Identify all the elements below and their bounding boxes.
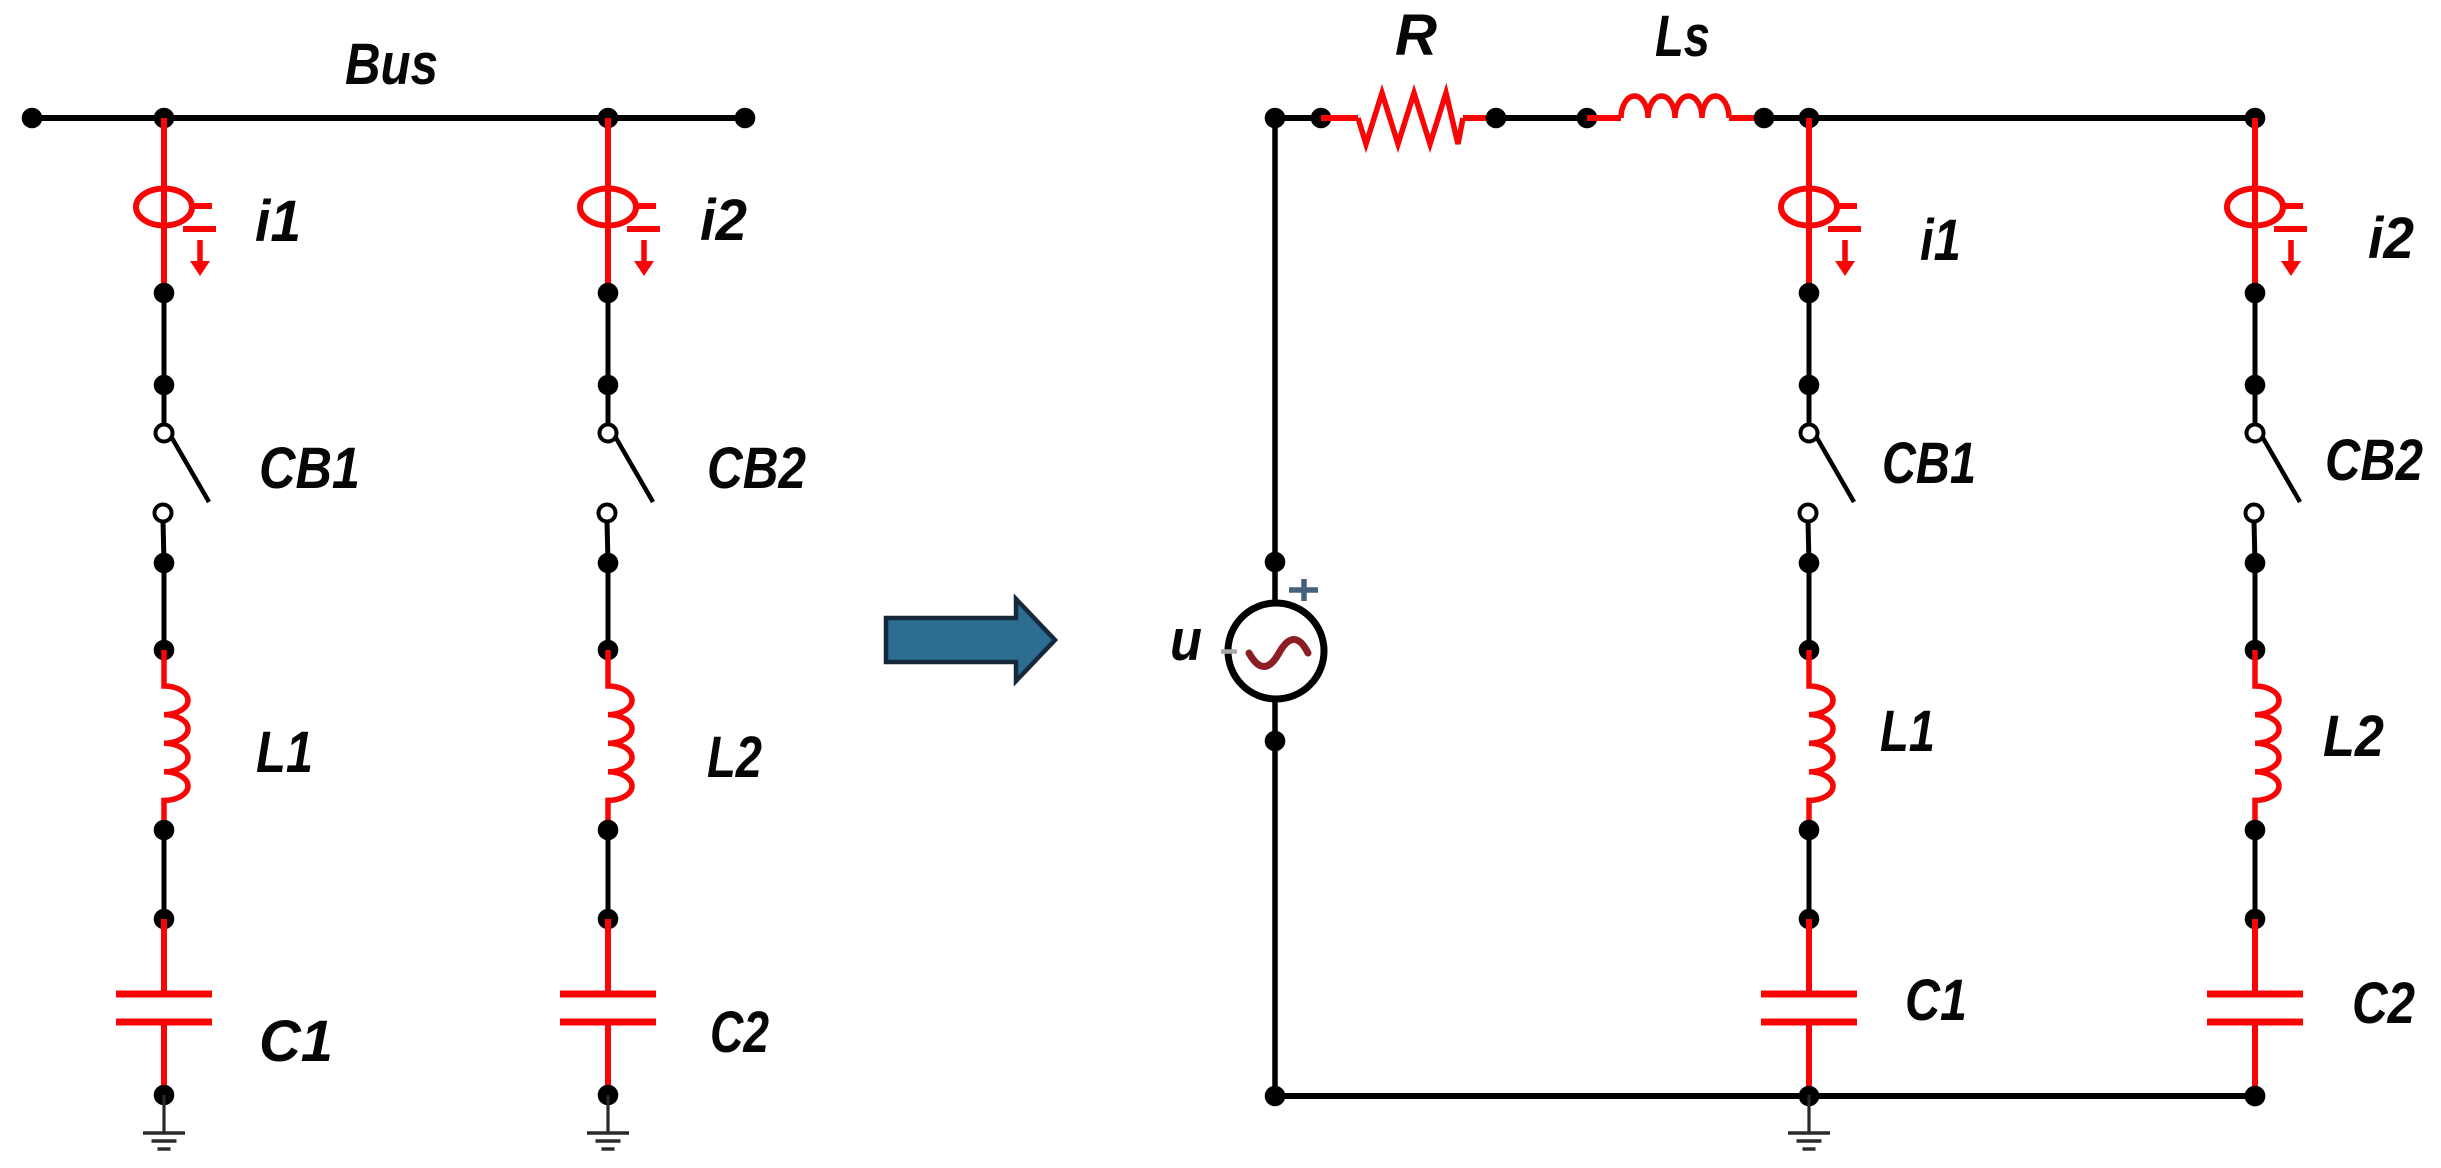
bus wire <box>32 115 745 121</box>
node below i2 <box>2245 283 2266 304</box>
capacitor C1 bottom plate <box>1761 1019 1857 1026</box>
svg-text:C2: C2 <box>2352 971 2415 1036</box>
node bottom-right corner <box>2245 1086 2266 1107</box>
current transformer i1 polarity mark <box>1828 226 1861 232</box>
node top-right corner <box>2245 108 2266 129</box>
wire <box>1807 385 1812 424</box>
svg-text:C2: C2 <box>710 1000 769 1065</box>
wire (red) bus to node, branch i2 <box>2252 118 2258 293</box>
current transformer i1 terminal tick <box>1837 203 1857 209</box>
wire (red) lead from R <box>1463 115 1496 121</box>
wire <box>606 385 611 424</box>
node <box>1799 640 1820 661</box>
svg-text:L1: L1 <box>1880 699 1935 764</box>
circuit breaker CB2 bottom contact <box>2246 505 2263 522</box>
node <box>2245 375 2266 396</box>
wire <box>2254 521 2255 563</box>
node <box>154 909 175 930</box>
inductor L2 <box>608 650 632 830</box>
node below i1 <box>1799 283 1820 304</box>
circuit breaker CB1 top contact <box>156 425 173 442</box>
svg-text:CB1: CB1 <box>259 436 360 501</box>
node <box>2245 640 2266 661</box>
current transformer i2 current direction arrow <box>641 240 647 262</box>
svg-text:L2: L2 <box>2323 704 2384 769</box>
ground <box>606 1095 609 1133</box>
node <box>1577 108 1598 129</box>
node <box>598 1085 619 1106</box>
wire <box>1807 830 1812 919</box>
circuit breaker CB1 top contact <box>1801 425 1818 442</box>
svg-text:CB2: CB2 <box>2325 428 2423 493</box>
wire <box>1807 293 1812 385</box>
svg-text:C1: C1 <box>1905 968 1967 1033</box>
node below i2 <box>598 283 619 304</box>
capacitor C1 top plate <box>1761 991 1857 998</box>
wire <box>1807 563 1812 650</box>
wire <box>162 563 167 650</box>
wire <box>162 293 167 385</box>
node <box>598 909 619 930</box>
wire <box>1496 115 1587 121</box>
inductor L1 <box>164 650 188 830</box>
svg-text:CB2: CB2 <box>707 436 806 501</box>
node <box>1311 108 1332 129</box>
node bus / branch 1 junction <box>154 108 175 129</box>
wire (red) to capacitor C1 <box>161 919 167 994</box>
current transformer i2 current direction arrow <box>2288 240 2294 262</box>
svg-text:C1: C1 <box>259 1009 333 1074</box>
current transformer i2 circle <box>2227 189 2283 226</box>
wire (red) to capacitor C1 <box>1806 919 1812 994</box>
svg-text:i2: i2 <box>2368 206 2414 271</box>
node <box>1486 108 1507 129</box>
node <box>154 375 175 396</box>
wire (red) capacitor C2 to bottom <box>2252 1022 2258 1096</box>
wire <box>607 521 608 563</box>
svg-text:R: R <box>1395 3 1437 68</box>
current transformer i2 polarity mark <box>627 226 660 232</box>
voltage source polarity + <box>1289 579 1318 601</box>
voltage source sine wave <box>1249 640 1308 667</box>
circuit breaker CB2 blade <box>2263 438 2300 502</box>
capacitor C2 bottom plate <box>2207 1019 2303 1026</box>
wire <box>606 830 611 919</box>
node bus / branch 2 junction <box>598 108 619 129</box>
node <box>154 820 175 841</box>
node top-left corner <box>1265 108 1286 129</box>
wire <box>2253 293 2258 385</box>
wire (red) to capacitor C2 <box>605 919 611 994</box>
node branch i1 junction <box>1799 108 1820 129</box>
node <box>1799 375 1820 396</box>
wire (red) lead from Ls <box>1729 115 1764 121</box>
node <box>598 553 619 574</box>
current transformer i1 current direction arrow <box>1842 240 1848 262</box>
circuit breaker CB1 bottom contact <box>155 505 172 522</box>
node <box>2245 820 2266 841</box>
wire (red) capacitor C1 to bottom <box>1806 1022 1812 1096</box>
ground <box>162 1095 165 1133</box>
svg-text:i1: i1 <box>255 189 301 254</box>
node <box>154 640 175 661</box>
current transformer i2 terminal tick <box>2283 203 2303 209</box>
node above source <box>1265 552 1286 573</box>
voltage source polarity minus tick <box>1221 649 1237 654</box>
node <box>154 1085 175 1106</box>
wire <box>1275 115 1321 121</box>
wire left rail top <box>1272 118 1278 606</box>
svg-text:i2: i2 <box>700 188 747 253</box>
wire (red) to capacitor C2 <box>2252 919 2258 994</box>
wire (red) lead to R <box>1321 115 1358 121</box>
voltage source u circle <box>1228 603 1324 699</box>
wire <box>1808 521 1809 563</box>
wire <box>163 521 164 563</box>
node <box>598 640 619 661</box>
inductor Ls <box>1621 96 1729 118</box>
circuit breaker CB1 blade <box>1817 438 1854 502</box>
node <box>1799 820 1820 841</box>
wire <box>2253 830 2258 919</box>
capacitor C2 top plate <box>2207 991 2303 998</box>
circuit breaker CB2 bottom contact <box>599 505 616 522</box>
node below source <box>1265 731 1286 752</box>
node <box>1799 553 1820 574</box>
svg-text:Ls: Ls <box>1655 4 1710 69</box>
wire <box>162 830 167 919</box>
wire (red) capacitor C1 to bottom <box>161 1022 167 1095</box>
wire left rail bottom <box>1272 697 1278 1096</box>
wire <box>2253 385 2258 424</box>
equivalence arrow <box>886 599 1055 681</box>
node <box>1799 1086 1820 1107</box>
node <box>2245 1086 2266 1107</box>
capacitor C2 bottom plate <box>560 1019 656 1026</box>
current transformer i1 circle <box>1781 189 1837 226</box>
ground <box>1807 1095 1810 1133</box>
wire <box>606 563 611 650</box>
svg-text:Bus: Bus <box>345 32 438 97</box>
current transformer i1 polarity mark <box>183 226 216 232</box>
circuit breaker CB2 top contact <box>600 425 617 442</box>
resistor R <box>1358 93 1463 144</box>
svg-text:CB1: CB1 <box>1882 431 1976 496</box>
inductor L2 <box>2255 650 2279 830</box>
wire <box>162 385 167 424</box>
node <box>1754 108 1775 129</box>
wire (red) capacitor C2 to bottom <box>605 1022 611 1095</box>
wire (red) bus to node, branch i1 <box>1806 118 1812 293</box>
circuit breaker CB1 bottom contact <box>1800 505 1817 522</box>
capacitor C1 bottom plate <box>116 1019 212 1026</box>
circuit breaker CB2 top contact <box>2247 425 2264 442</box>
node <box>598 820 619 841</box>
capacitor C1 top plate <box>116 991 212 998</box>
circuit breaker CB2 blade <box>616 438 653 502</box>
node bus left end <box>22 108 43 129</box>
wire (red) lead to Ls <box>1587 115 1621 121</box>
node <box>1799 909 1820 930</box>
node bus right end <box>735 108 756 129</box>
current transformer i2 terminal tick <box>636 203 656 209</box>
wire (red) bus to node, branch i2 <box>605 118 611 293</box>
svg-text:i1: i1 <box>1920 208 1961 273</box>
wire bottom rail <box>1275 1093 2255 1099</box>
svg-text:L2: L2 <box>707 725 762 790</box>
svg-text:u: u <box>1170 608 1202 673</box>
node bottom-left corner <box>1265 1086 1286 1107</box>
wire (red) bus to node, branch i1 <box>161 118 167 293</box>
wire <box>606 293 611 385</box>
circuit breaker CB1 blade <box>172 438 209 502</box>
inductor L1 <box>1809 650 1833 830</box>
node <box>154 553 175 574</box>
current transformer i1 current direction arrow <box>197 240 203 262</box>
svg-text:L1: L1 <box>256 720 313 785</box>
node <box>2245 909 2266 930</box>
wire <box>2253 563 2258 650</box>
node <box>2245 553 2266 574</box>
node <box>598 375 619 396</box>
capacitor C2 top plate <box>560 991 656 998</box>
current transformer i2 polarity mark <box>2274 226 2307 232</box>
node below i1 <box>154 283 175 304</box>
wire top rail <box>1764 115 2255 121</box>
current transformer i2 circle <box>580 189 636 226</box>
current transformer i1 terminal tick <box>192 203 212 209</box>
current transformer i1 circle <box>136 189 192 226</box>
